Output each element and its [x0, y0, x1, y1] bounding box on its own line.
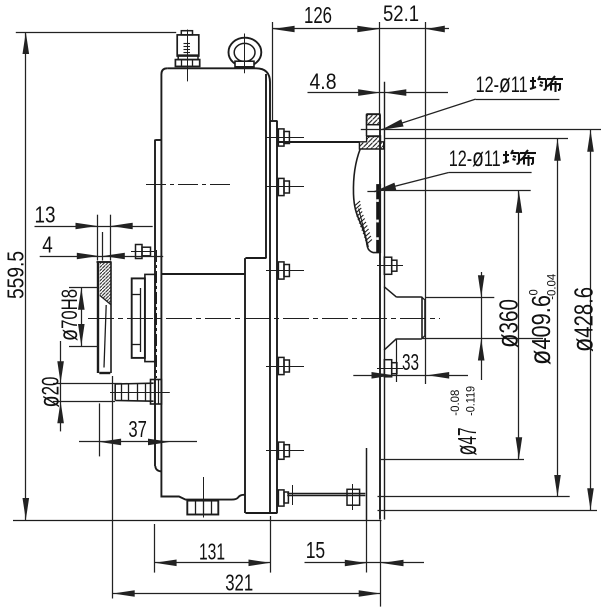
svg-text:ø409.6: ø409.6 — [524, 295, 557, 365]
dimension phi20 extension lines — [53, 383, 122, 385]
drain plug — [187, 501, 218, 515]
plate bolt 4 — [278, 357, 284, 374]
plate bolt 1 — [278, 129, 284, 146]
svg-text:-0.08: -0.08 — [448, 389, 462, 415]
bell housing foot bottom edge — [245, 512, 277, 514]
tie rod nut — [347, 489, 360, 505]
right mounting plate — [269, 121, 271, 513]
svg-text:13: 13 — [35, 201, 56, 227]
dimension 37 extension line — [99, 403, 101, 456]
bell housing curve — [353, 149, 380, 253]
svg-text:ø428.6: ø428.6 — [567, 287, 600, 352]
bell housing crescent hatch — [355, 201, 361, 206]
output shaft root cone — [384, 287, 397, 298]
leader 12-phi11 upper — [476, 99, 560, 101]
output shaft step line — [396, 339, 398, 382]
input shaft threaded stub — [115, 383, 153, 401]
svg-text:ø70H8: ø70H8 — [53, 289, 83, 341]
dimension 131 extension lines — [154, 524, 156, 573]
plate bolt 5 — [278, 442, 284, 459]
plate bolt 3 — [278, 262, 284, 279]
output flange face bolt upper — [384, 257, 391, 274]
input stub centerline — [110, 392, 170, 394]
body bottom profile with drain boss — [161, 472, 245, 500]
plate bolt 2 — [278, 178, 284, 195]
input bearing hub block — [145, 274, 155, 361]
svg-text:4.8: 4.8 — [310, 69, 337, 94]
left bolt-circle centerline — [156, 250, 158, 378]
dimension 126 extension line left — [272, 22, 274, 120]
flange face lines — [379, 114, 381, 519]
dimension 4 extension line — [102, 232, 104, 261]
svg-text:-0.04: -0.04 — [545, 273, 559, 299]
dimension phi70H8 extension lines — [69, 287, 98, 289]
dimension phi428.6 line — [590, 130, 592, 511]
svg-text:126: 126 — [304, 2, 332, 28]
dimension phi70H8 line — [81, 288, 83, 346]
dimension 4 line — [40, 256, 164, 258]
spigot boss bottom edges — [366, 448, 368, 521]
output flange face bolt lower — [384, 360, 391, 377]
flange bolt hole gap lines — [367, 136, 381, 138]
flange section lower hatched block — [359, 136, 383, 149]
svg-text:4: 4 — [42, 232, 53, 258]
dimension phi428.6 extension lines — [361, 129, 601, 131]
svg-text:52.1: 52.1 — [383, 1, 419, 26]
svg-text:321: 321 — [225, 570, 253, 596]
svg-text:ø47: ø47 — [450, 428, 483, 456]
svg-text:37: 37 — [128, 416, 147, 442]
breather centerline — [187, 30, 189, 82]
dimension phi409.6 line — [557, 139, 559, 497]
gearbox body outline — [167, 68, 270, 121]
breather plug body — [177, 35, 199, 56]
input hub hatched section — [100, 263, 111, 305]
svg-text:0: 0 — [527, 289, 541, 295]
breather plug washer — [178, 55, 198, 60]
input cover disc taper line — [104, 305, 106, 368]
dimension 13 line — [35, 226, 153, 228]
upper gear axis centerline — [146, 184, 232, 186]
svg-text:15: 15 — [306, 537, 326, 563]
dimension 126-52.1 shared extension line — [379, 22, 381, 114]
dimension phi47 extension lines — [426, 297, 495, 299]
dimension 131 line — [155, 562, 271, 564]
drain plug centerline — [203, 477, 205, 518]
main horizontal centerline — [88, 318, 440, 320]
output shaft spigot — [397, 296, 422, 298]
dimension 559.5 line — [25, 32, 27, 520]
dimension 4.8 line — [308, 92, 449, 94]
bell housing top edge — [277, 141, 359, 143]
dimension 15 extension lines — [366, 521, 368, 573]
eye bolt ring — [229, 38, 262, 67]
input stub nut — [151, 380, 162, 405]
svg-text:33: 33 — [402, 349, 419, 375]
body interior cavity step — [265, 74, 267, 258]
svg-text:ø360: ø360 — [492, 299, 525, 348]
flange bolt pattern dark bar — [376, 184, 381, 253]
svg-text:-0.119: -0.119 — [464, 386, 478, 416]
breather plug cap — [181, 31, 192, 35]
dimension 321 line — [113, 593, 381, 595]
dimension 15 line — [305, 562, 425, 564]
dimension 13 extension lines — [97, 215, 99, 261]
ground base line — [13, 520, 382, 522]
svg-text:559.5: 559.5 — [3, 251, 29, 299]
flange left edge — [366, 114, 368, 136]
dimension phi47 line — [481, 272, 483, 380]
eye bolt base — [235, 61, 254, 67]
leader 12-phi11 lower — [449, 172, 532, 174]
dimension 559.5 extension line top — [16, 32, 176, 34]
dimension phi360 extension lines — [384, 190, 531, 192]
dimension 33 line — [353, 375, 468, 377]
eye bolt centerline — [244, 34, 246, 74]
dimension phi409.6 extension lines — [384, 138, 568, 140]
dimension 37 line — [79, 441, 197, 443]
dimension phi360 line — [518, 191, 520, 459]
body left mounting pad — [154, 140, 156, 467]
svg-text:12-ø11: 12-ø11 — [449, 142, 501, 172]
svg-text:131: 131 — [199, 538, 225, 564]
plate bolt 6 with tie rod — [278, 490, 284, 506]
svg-text:ø20: ø20 — [34, 377, 65, 408]
breather plug nut — [175, 60, 199, 67]
dimension phi20 line — [60, 341, 62, 431]
svg-text:12-ø11: 12-ø11 — [476, 68, 528, 98]
dimension 321 extension line — [112, 376, 114, 599]
flange section upper hatched block — [367, 114, 380, 124]
dimension 52.1 extension line right — [425, 22, 427, 384]
dimension 126 line — [273, 28, 426, 30]
input cover upper bolt — [136, 245, 143, 259]
input cover plate — [97, 262, 99, 373]
dimension 52.1 outside arrow — [426, 28, 449, 30]
